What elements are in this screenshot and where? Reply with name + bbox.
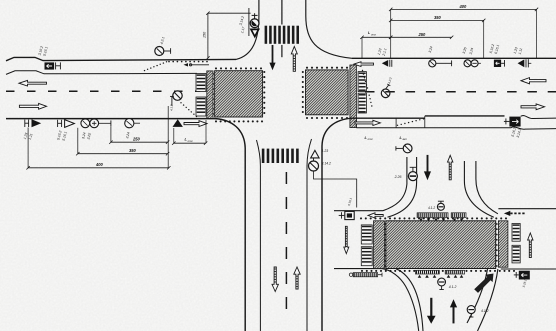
label L vkl (east box) <box>400 135 408 141</box>
hatched square right (box junction marking) <box>306 70 349 115</box>
wire leader from sign down to lower intersection <box>314 171 357 208</box>
label below lower-right sign <box>522 279 528 288</box>
sign row-2 east (circle 3.24 with T pole) <box>429 60 452 67</box>
wire extension lines for L otg <box>174 120 206 143</box>
hatched strip left of left square <box>207 71 213 119</box>
ladder crosswalk lower-right upper half <box>512 224 520 242</box>
ladder crosswalk east lower half <box>358 93 366 113</box>
sign 2.26 circle on upper leg <box>408 167 417 180</box>
arrow down filled (upper leg) <box>424 155 431 180</box>
label under sign 1 <box>23 132 34 140</box>
label 1.23 <box>322 149 329 153</box>
dimension L otg (west) <box>172 137 207 145</box>
label 4.2.3 <box>387 77 393 85</box>
label 4.1.2 (b) <box>481 309 489 313</box>
dimension 400 (west) <box>26 162 170 169</box>
label 5.16.1 above <box>347 197 353 206</box>
wire bottom road centre dashed line <box>285 172 287 318</box>
wire lower-right road top edge <box>498 208 556 210</box>
sign 4.2.1 circle with pole (above west road) <box>155 47 171 56</box>
stud dots above big rect <box>360 217 507 267</box>
label above sign row-2 <box>428 46 434 54</box>
arrow small left (east, first lane) <box>354 62 374 67</box>
give-way bar 1 below rect <box>415 270 439 277</box>
sign row-3 east (two circles) <box>464 60 481 67</box>
dimension 350 (west) <box>76 148 169 155</box>
arrow acceleration lane east <box>355 120 380 125</box>
wire dim extension lines east <box>362 9 537 58</box>
wire NE corner curve of vertical road <box>306 0 352 58</box>
sign 5.16.2 black square at east end (pole H) <box>504 117 521 127</box>
stop bar marking (lower-left, below road) <box>349 273 382 277</box>
sign 3 (two circles 3.24/3.25 with pole) <box>81 119 111 128</box>
dotted merge trajectory east <box>397 118 424 126</box>
sign 3.27 below L-box (pole + circle) <box>396 144 412 153</box>
sign 4.1.1 circle + give-way triangle at crossing NW <box>249 8 259 37</box>
arrow eastbound east road <box>521 104 545 110</box>
label 2.26 <box>394 175 402 179</box>
wire bottom road inner right lane line <box>307 139 312 331</box>
arrow down filled (lower leg) <box>427 298 436 324</box>
big hatched rectangle (lower intersection) <box>386 221 496 269</box>
labels above sign row-5 <box>513 47 523 55</box>
wire centre line of vertical road (top) <box>281 0 283 57</box>
dotted right-turn trajectory east <box>362 70 373 107</box>
arrow up outline (upper leg) <box>448 155 453 180</box>
sign 4.1.2 circle at slip lane <box>467 306 475 317</box>
dimension 250 (west) <box>109 137 169 144</box>
arrow up filled (lower leg) <box>450 299 457 323</box>
dimension 350 (east) <box>389 15 485 22</box>
stud dots around right square <box>302 67 351 119</box>
dimension L otg (east top) <box>360 31 392 39</box>
sign 5.16.1 black square on west top edge <box>45 62 61 69</box>
label 4.2.1 <box>160 36 166 44</box>
sign row-4 east (square 5.16 + pole) <box>494 60 505 67</box>
dotted lane-change trajectory upper <box>144 61 208 72</box>
wire upper-right leg inner curve <box>464 161 493 217</box>
wire lower leg outer left curve <box>382 269 419 331</box>
hatched strip right of big rect <box>498 221 508 267</box>
wire west road top edge with break symbol <box>6 57 236 60</box>
wire upper-left leg outer curve <box>383 157 407 211</box>
dimension 150 vertical with leader <box>203 12 251 60</box>
wire lower-right road bottom edge <box>501 268 556 270</box>
sign 5.16.1 square (lower-left road) <box>339 211 354 219</box>
label 3.14.2 <box>322 162 332 166</box>
sign post 1 (pole H + filled triangle 1.23) <box>25 119 41 127</box>
give-way bar top-2 above rect <box>451 213 466 222</box>
wire west road centre dashed line <box>6 90 200 92</box>
wire extension line sign1 to 400 dim <box>27 128 29 168</box>
wire upper-right leg outer curve <box>476 161 498 214</box>
sign 4.1.2 circle near rect top <box>437 201 444 210</box>
wire east road top edge <box>352 57 556 59</box>
give-way bar 2 below rect <box>445 270 464 277</box>
hatched strip left of big rect <box>374 221 385 269</box>
label 4.1.2 (c) <box>428 206 435 210</box>
wire west road upper lane line with break symbol <box>6 71 197 75</box>
wire slip lane outer curve <box>478 269 498 331</box>
sign 4.1.2 no-stop circle with pole (inside west road) <box>170 91 182 106</box>
labels above sign row-4 <box>489 44 500 55</box>
sign row-1 east (1.23 filled triangle + poles) <box>382 60 392 67</box>
sign 5.16.1 black square (lower-right road) <box>514 271 530 280</box>
ladder crosswalk lower-left lower half <box>361 247 372 266</box>
give-way bar top-1 above rect <box>417 213 448 222</box>
ladder crosswalk west lower half <box>196 97 206 116</box>
wire SE corner curve + bottom road outer right edge <box>322 118 352 331</box>
wire long extension line at x168 <box>167 106 169 168</box>
arrow westbound east road <box>521 78 546 84</box>
label L otg (east box) <box>365 135 374 141</box>
labels above sign row-1 <box>377 48 388 57</box>
arrow eastbound lane (right outline arrow) <box>19 103 46 109</box>
label 3.14.2 / 1.17 <box>239 16 246 34</box>
sign 4 (circle 3.24) <box>125 119 140 128</box>
hatched square left (box junction marking) <box>215 71 263 117</box>
wire lower-left road top edge <box>334 210 383 212</box>
zebra crosswalk across vertical road (bottom) <box>262 149 299 163</box>
sign 4.1.2 circle below rect <box>438 278 446 289</box>
label under sign 4 <box>125 132 131 140</box>
wire east road centre dashed line <box>365 91 556 93</box>
arrow left dashed (lower-right road) <box>504 211 526 216</box>
dimension 250 (east) <box>389 32 453 39</box>
sign 5 give-way filled triangle + outline arrow into intersection <box>173 119 208 127</box>
wire east road second (acceleration lane) line + break <box>356 127 556 129</box>
label 4.1.2 (a) <box>449 285 457 289</box>
ladder crosswalk lower-left upper half <box>361 225 372 244</box>
label under sign 2 <box>56 130 68 141</box>
stud dots below big rect <box>361 270 515 272</box>
wire west road bottom edge + SW corner curve + bottom road outer left edge <box>6 119 245 331</box>
ladder crosswalk west upper half <box>196 74 206 92</box>
label 4.1.2 rotated <box>170 104 174 111</box>
wire lower-left road bottom edge <box>334 268 382 270</box>
wire L-box verticals east <box>356 116 424 128</box>
label under sign 3 <box>81 132 92 140</box>
label 3.16.2 / 5.16.1 above sign <box>38 46 49 57</box>
wire extension line sign3 to 250 dim <box>110 126 112 142</box>
sign 4.1.2 no-stop (east, with pole) <box>381 84 390 98</box>
small left arrow near crossing <box>184 63 210 66</box>
wire east road bottom edge segments + break <box>352 116 556 119</box>
wire lower leg inner left curve <box>396 269 423 331</box>
arrow down outline (lower-left road) <box>344 226 349 253</box>
arrow left (lower-left road) <box>368 213 383 218</box>
merge arrow in slip lane <box>474 274 493 293</box>
wire extension line sign2 to 350 dim <box>77 128 79 154</box>
ladder crosswalk lower-right lower half <box>512 245 520 263</box>
arrow westbound lane (left outline arrow) <box>19 80 47 86</box>
wire NW corner curve of vertical road <box>236 0 259 59</box>
stud dots around left square <box>212 67 265 122</box>
wire slip lane inner curve <box>467 269 488 323</box>
labels above sign row-3 <box>462 47 474 55</box>
sign 1.23 triangle + 3.14.2 circle at SE of crossing <box>309 150 320 171</box>
zebra crosswalk across vertical road (top) <box>265 26 299 44</box>
arrow northbound outline (vertical road top) <box>291 46 297 71</box>
hatched strip right of right square <box>350 65 357 128</box>
wire bottom road inner left lane line <box>257 140 261 331</box>
dimension 400 (east) <box>389 4 538 11</box>
arrow southbound outline (bottom road) <box>272 267 278 292</box>
dotted lane-change trajectory lower <box>180 102 197 117</box>
arrow southbound filled (vertical road top) <box>269 45 275 70</box>
wire upper-left leg inner curve <box>388 157 417 217</box>
labels below east end sign <box>511 127 523 138</box>
ladder crosswalk east upper half <box>358 72 366 92</box>
arrow northbound outline (bottom road) <box>294 267 300 289</box>
arrow up outline (lower-right road) <box>528 233 533 258</box>
sign post 2 (pole H + outline triangle 5.16) <box>58 120 75 128</box>
sign row-5 east (1.23 filled triangle + poles) <box>518 59 532 67</box>
